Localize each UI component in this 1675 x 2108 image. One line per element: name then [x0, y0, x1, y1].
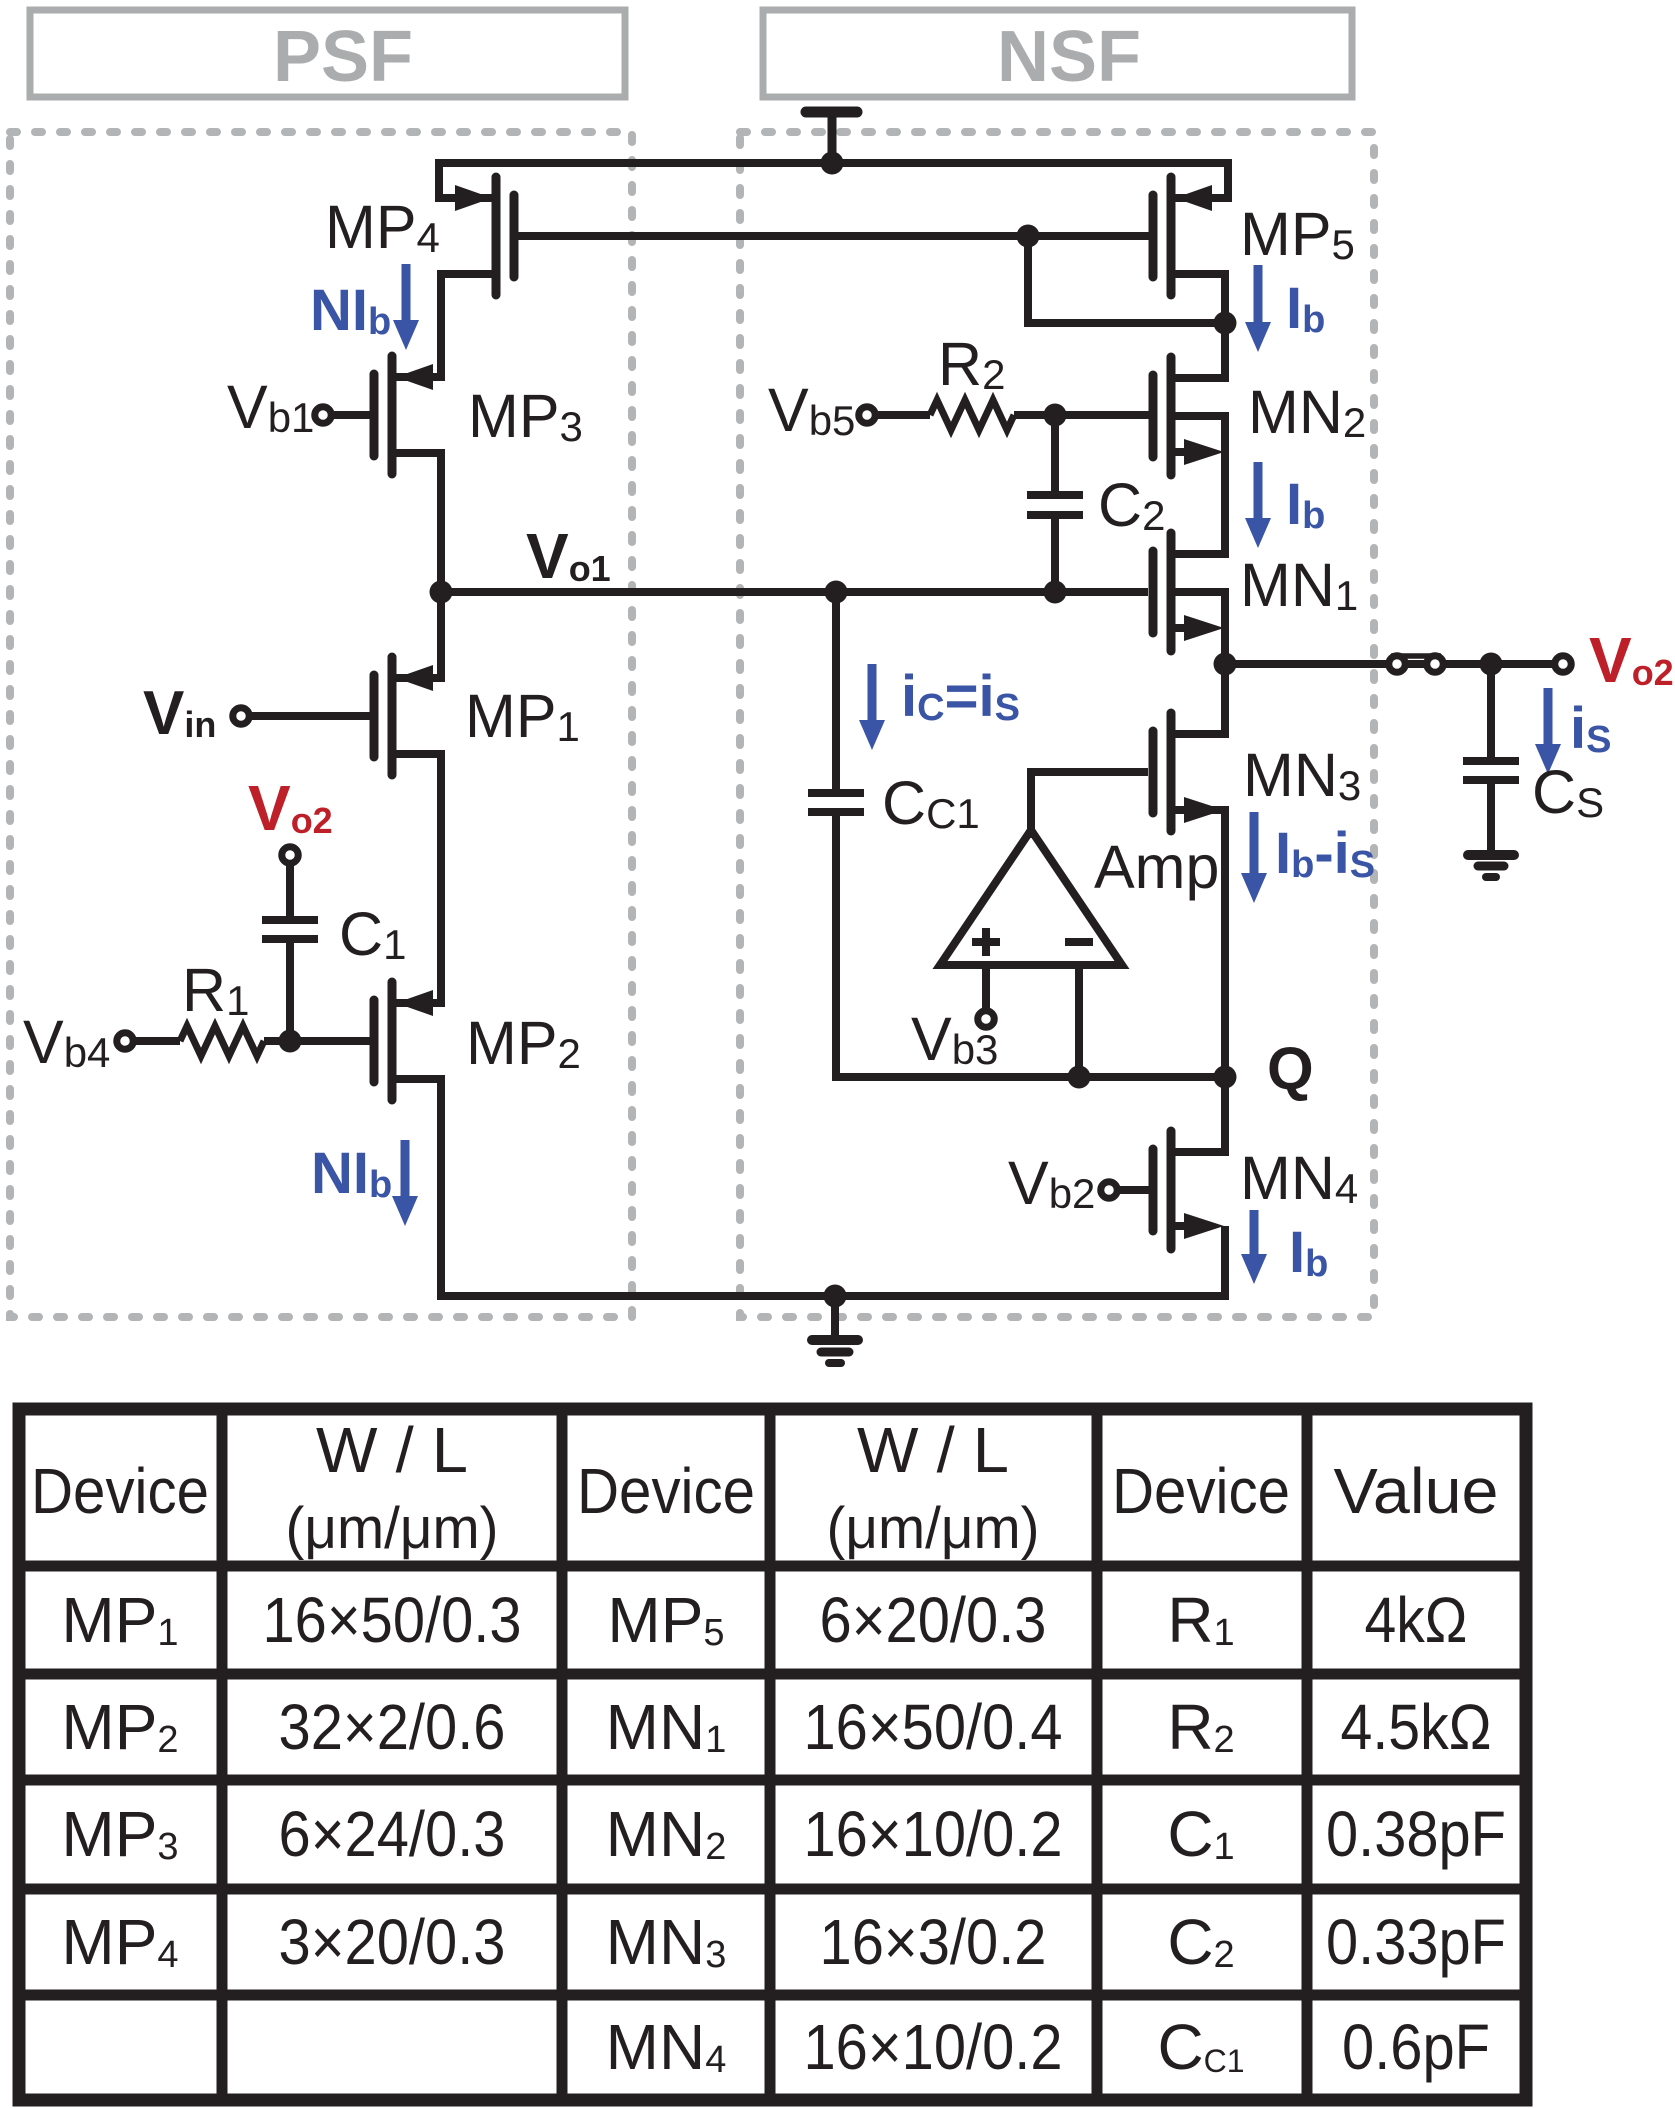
wire CC1 to Q line — [836, 812, 1225, 1077]
label Vb4 — [23, 1008, 110, 1076]
svg-text:0.38pF: 0.38pF — [1326, 1798, 1506, 1870]
transistor MP3 (PMOS) — [374, 356, 433, 474]
wire Vo2 terminal to C1 — [286, 864, 294, 920]
transistor MN2 (NMOS, bulk tied) — [1153, 357, 1225, 475]
wire node Vo1 horizontal — [441, 588, 1148, 596]
label MN2 — [1248, 378, 1366, 446]
svg-text:16×50/0.3: 16×50/0.3 — [263, 1584, 522, 1656]
wire node Vo2 line — [1225, 660, 1563, 668]
label MP5 — [1240, 200, 1355, 268]
label NIb bottom — [311, 1141, 392, 1206]
ground symbol (CS) — [1468, 855, 1514, 877]
wire Amp plus input to Vb3 — [982, 962, 990, 1010]
svg-text:4.5kΩ: 4.5kΩ — [1341, 1691, 1492, 1763]
wire MN1 source to MN3 drain — [1175, 588, 1225, 734]
VDD supply symbol — [806, 108, 857, 163]
table data row 3 — [61, 1691, 1491, 1763]
terminal Vb3 — [978, 1011, 995, 1028]
junction R1/C1/MP2 gate — [279, 1030, 302, 1053]
transistor MP1 (PMOS) — [374, 657, 433, 775]
terminal Vo2 (left) — [282, 847, 299, 864]
junction Amp minus at Q line — [1068, 1066, 1091, 1089]
junction Vo2 node at rail — [1214, 653, 1237, 676]
svg-text:Device: Device — [1112, 1455, 1290, 1527]
label C2 — [1098, 471, 1165, 539]
svg-text:6×24/0.3: 6×24/0.3 — [279, 1798, 506, 1870]
wire MP4 gate to MP5 gate — [518, 232, 1149, 240]
label Ib below MN2 — [1286, 472, 1325, 537]
resistor R1 — [180, 1026, 264, 1056]
svg-text:6×20/0.3: 6×20/0.3 — [820, 1584, 1047, 1656]
PSF block label box — [30, 10, 625, 97]
junction gate link — [1017, 225, 1040, 248]
wire Vo2 to CS — [1487, 664, 1495, 761]
svg-text:16×50/0.4: 16×50/0.4 — [804, 1691, 1063, 1763]
svg-text:4kΩ: 4kΩ — [1365, 1584, 1468, 1656]
label Vin — [143, 679, 216, 748]
svg-text:W / L: W / L — [857, 1414, 1009, 1486]
current arrow ic=is — [859, 664, 885, 750]
wire top VDD rail with MP4/MP5 source leads — [439, 163, 1228, 198]
table data row 6 — [606, 2011, 1490, 2083]
label Vb1 — [227, 373, 314, 441]
wire MP3 drain to MP1 source — [396, 453, 441, 678]
label C1 — [339, 900, 406, 968]
NSF block dashed outline — [740, 132, 1374, 1317]
transistor MN3 (NMOS) — [1153, 713, 1224, 831]
transistor MP2 (PMOS) — [374, 982, 433, 1100]
transistor MP5 (PMOS) — [1153, 177, 1212, 295]
label ic=is — [901, 664, 1020, 729]
junction node Q — [1214, 1066, 1237, 1089]
terminal Vb5 — [859, 407, 930, 424]
junction ground rail — [824, 1285, 847, 1308]
label CC1 — [882, 769, 980, 837]
svg-text:Device: Device — [31, 1455, 209, 1527]
wire C2 to Vo1 line — [1051, 515, 1059, 592]
table data row 2 — [61, 1584, 1467, 1656]
current arrow Ib (below MN2) — [1245, 462, 1271, 548]
svg-text:W / L: W / L — [316, 1414, 468, 1486]
wire R2 to MN2 gate — [1014, 411, 1149, 419]
svg-text:3×20/0.3: 3×20/0.3 — [279, 1906, 506, 1978]
label Vo2 right — [1589, 624, 1674, 696]
label Vb5 — [768, 376, 855, 444]
wire MP5 drain to MN2 drain — [1175, 274, 1225, 378]
wire R2 node to C2 — [1051, 415, 1059, 495]
PSF block dashed outline — [10, 132, 632, 1317]
label MP2 — [466, 1009, 581, 1077]
junction MP5 drain node — [1214, 312, 1237, 335]
NSF block label box — [763, 10, 1352, 97]
junction CS tap — [1480, 653, 1503, 676]
current arrow Ib (below MP5) — [1245, 265, 1271, 352]
svg-text:Q: Q — [1267, 1035, 1314, 1102]
label Vb2 — [1008, 1149, 1095, 1217]
wire MP2 drain to ground rail to MN4 source — [396, 1079, 1225, 1296]
wire R1 to MP2 gate — [264, 1037, 370, 1045]
ground symbol (main rail) — [812, 1296, 858, 1363]
op-amp Amp — [940, 830, 1122, 965]
label Ib below MP5 — [1286, 276, 1325, 341]
terminal Vo2 (right) — [1555, 656, 1572, 673]
svg-text:16×10/0.2: 16×10/0.2 — [804, 2011, 1063, 2083]
current arrow Ib-is — [1241, 812, 1267, 903]
label MP3 — [468, 382, 583, 450]
label Vo1 — [526, 520, 611, 592]
capacitor CS — [1463, 761, 1519, 780]
wire MP4 drain to MP3 source — [396, 274, 492, 377]
wire Vo1 to CC1 — [832, 592, 840, 793]
current arrow is (into CS) — [1535, 688, 1561, 774]
label MN1 — [1240, 551, 1358, 619]
junction R2/C2 node — [1044, 404, 1067, 427]
svg-text:16×3/0.2: 16×3/0.2 — [820, 1906, 1047, 1978]
label R1 — [182, 956, 249, 1024]
svg-text:(μm/μm): (μm/μm) — [286, 1496, 499, 1561]
current arrow Ib (below MN4) — [1241, 1210, 1267, 1284]
label Q — [1267, 1035, 1314, 1102]
svg-text:(μm/μm): (μm/μm) — [827, 1496, 1040, 1561]
wire MN3 source to Q to MN4 drain — [1175, 810, 1225, 1152]
wire CS to ground — [1487, 780, 1495, 852]
transistor MN4 (NMOS) — [1153, 1131, 1224, 1249]
label NIb top — [310, 278, 391, 343]
svg-text:32×2/0.6: 32×2/0.6 — [279, 1691, 506, 1763]
svg-text:0.6pF: 0.6pF — [1342, 2011, 1490, 2083]
label Vb3 — [911, 1005, 998, 1073]
wire MN2 source to MN1 drain — [1175, 412, 1225, 554]
label R2 — [938, 330, 1005, 398]
switch S1 on output line — [1389, 656, 1444, 673]
wire Amp output to MN3 gate — [1031, 772, 1148, 838]
label MP4 — [325, 193, 440, 261]
label MP1 — [465, 682, 580, 750]
terminal Vb4 — [117, 1033, 180, 1050]
capacitor C1 — [262, 920, 318, 939]
terminal Vb2 — [1101, 1182, 1149, 1199]
junction VDD rail — [821, 152, 844, 175]
label is — [1570, 696, 1611, 761]
label MN4 — [1240, 1144, 1358, 1212]
svg-text:NSF: NSF — [997, 17, 1141, 97]
junction Vo1 at PSF spine — [430, 581, 453, 604]
svg-text:16×10/0.2: 16×10/0.2 — [804, 1798, 1063, 1870]
svg-text:Device: Device — [577, 1455, 755, 1527]
label CS — [1532, 758, 1604, 826]
label Amp — [1094, 833, 1219, 901]
capacitor C2 — [1027, 495, 1083, 515]
device table grid — [19, 1409, 1526, 2100]
label Vo2 left — [248, 772, 333, 844]
transistor MN1 (NMOS, bulk tied) — [1153, 533, 1225, 651]
svg-text:Amp: Amp — [1094, 833, 1219, 901]
svg-text:PSF: PSF — [273, 17, 413, 97]
current arrow NIb (bottom) — [392, 1140, 418, 1226]
capacitor CC1 — [808, 793, 864, 812]
transistor MP4 (mirrored PMOS, channel x=496, gate bar x=514) — [455, 177, 514, 295]
current arrow NIb (top) — [393, 264, 419, 350]
svg-text:Value: Value — [1334, 1455, 1499, 1527]
table header row — [31, 1414, 1499, 1561]
label MN3 — [1243, 741, 1361, 809]
terminal Vb1 — [315, 407, 370, 424]
table data row 4 — [61, 1798, 1506, 1870]
table data row 5 — [61, 1906, 1506, 1978]
wire C1 to R1 node — [286, 939, 294, 1041]
resistor R2 — [930, 400, 1014, 430]
junction CC1 at Vo1 line — [825, 581, 848, 604]
svg-text:0.33pF: 0.33pF — [1326, 1906, 1506, 1978]
junction C2 at Vo1 line — [1044, 581, 1067, 604]
label Ib-is — [1275, 821, 1375, 886]
wire Amp minus input to Q line — [1075, 962, 1083, 1077]
label Ib below MN4 — [1289, 1220, 1328, 1285]
wire MP5 gate-drain diode connection — [1028, 236, 1225, 323]
wire MP1 drain to MP2 source — [396, 754, 441, 1003]
terminal Vin — [233, 708, 370, 725]
